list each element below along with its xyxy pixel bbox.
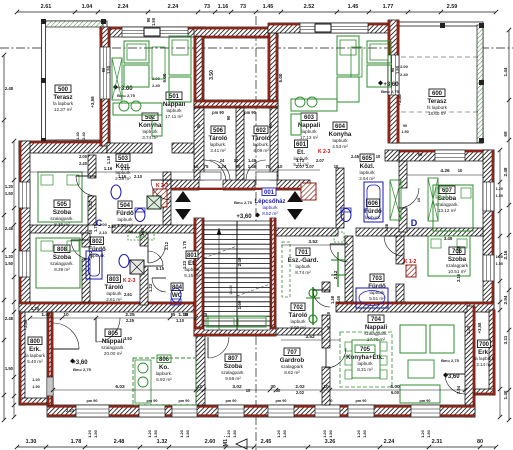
svg-text:2.48: 2.48 [5,86,14,91]
svg-text:fa lapburk: fa lapburk [474,356,495,361]
door 702 [313,290,330,307]
red faces east jog [465,303,494,417]
svg-text:1.50: 1.50 [496,262,503,266]
room label 503 K&#246;zl. [115,154,131,181]
svg-text:12.37 m²: 12.37 m² [54,107,73,112]
svg-text:szalagpark: szalagpark [446,263,469,268]
terrace 600 top rail [391,22,483,26]
red faces 805 west wall [48,312,52,405]
svg-text:K 2-3: K 2-3 [123,278,135,284]
bathtub 606 vertical [364,182,383,222]
window unit 501 top [122,27,188,37]
svg-text:lapburk: lapburk [262,205,278,210]
svg-text:lapburk: lapburk [142,129,158,134]
svg-text:1.10: 1.10 [176,318,185,323]
svg-text:1.50: 1.50 [395,65,400,74]
svg-text:1.50: 1.50 [496,194,503,198]
svg-text:Konyha: Konyha [329,131,352,138]
wall exterior west [19,141,30,312]
entrance arrow triangles left [175,191,191,220]
window top-right [435,150,465,161]
svg-text:805: 805 [108,331,119,337]
svg-text:2.10: 2.10 [121,166,130,171]
svg-text:700: 700 [479,342,490,348]
red face top-left wall [19,141,107,143]
svg-text:803: 803 [109,277,120,283]
window east 1 [483,182,494,211]
svg-text:Konyha: Konyha [139,122,162,129]
svg-text:601: 601 [296,142,307,148]
svg-text:703: 703 [372,276,383,282]
svg-text:3.52: 3.52 [124,336,133,341]
wall 702/707 [276,328,322,335]
svg-text:1.50: 1.50 [153,429,158,438]
svg-text:2.00: 2.00 [99,222,108,227]
svg-text:1.45: 1.45 [263,4,274,10]
door 803 [148,251,163,266]
svg-text:1.20: 1.20 [322,429,327,438]
red face 704 north [336,302,467,304]
svg-text:808: 808 [57,247,68,253]
svg-text:2.24: 2.24 [384,439,396,445]
wall top of unit 603 [268,23,399,33]
bed 706 [428,236,470,276]
balcony 800 bottom rail [19,398,53,405]
room label 601 Et. [293,140,309,167]
svg-text:Szoba: Szoba [448,256,467,263]
svg-text:+3,60: +3,60 [236,214,252,220]
room label 607 Szoba [435,186,459,213]
svg-text:1.46: 1.46 [384,223,389,232]
red flue labels [123,149,416,284]
svg-text:18.60 m²: 18.60 m² [428,111,447,116]
room label 504 F&#252;rd&#337; [116,201,134,228]
svg-text:704: 704 [371,317,382,323]
kitchen counter 502 [113,101,162,136]
kitchen counter 604 [291,97,337,135]
wall unit603 / terrace600 [388,20,399,143]
window unit 603 top [300,23,368,33]
svg-text:2.59: 2.59 [447,4,458,10]
interior dims bottom row [51,384,467,392]
svg-text:807: 807 [228,356,239,362]
terrace 500 posts [41,19,106,143]
svg-text:2.02: 2.02 [296,390,305,395]
room label 600 Terasz [427,89,448,116]
svg-text:5.51 m²: 5.51 m² [369,296,385,301]
svg-text:pm 90: pm 90 [244,110,257,115]
svg-text:2.00: 2.00 [400,64,409,69]
wall 702 east mid [322,315,330,348]
red faces bottom wall [47,406,475,415]
red face row2 bottom west [19,302,194,304]
door 807 [208,337,229,358]
window bottom 7 [348,405,374,417]
svg-text:2.07: 2.07 [296,164,305,169]
svg-text:1.50: 1.50 [93,429,98,438]
wardrobe 501 west [112,58,122,100]
room label 500 Terasz [53,85,74,112]
svg-text:1.20: 1.20 [5,254,14,259]
toilet 606 [341,208,351,222]
svg-text:1.40: 1.40 [503,390,508,399]
wall corridor east upper [270,108,278,180]
furniture 807 top [208,316,266,327]
svg-text:701: 701 [298,250,309,256]
svg-text:1.50: 1.50 [185,429,190,438]
svg-text:1.50: 1.50 [5,191,14,196]
svg-text:Et.: Et. [297,149,305,156]
svg-text:3.02: 3.02 [232,384,242,390]
wall 808 east lower [82,259,90,302]
room label 702 T&#225;rol&#243; [289,303,308,330]
svg-text:pm 90: pm 90 [276,399,287,403]
wall corridor north a [171,180,199,190]
svg-text:Tároló: Tároló [105,284,124,291]
svg-text:500: 500 [58,87,69,93]
window bottom 2 [139,405,165,417]
bed 607 [433,185,473,231]
stairwell label 001 [254,188,285,216]
svg-text:2.62: 2.62 [66,408,75,413]
wall recess top [194,27,278,38]
svg-text:Et.: Et. [188,260,196,267]
door 801 [148,246,165,263]
svg-text:Bm= 2,75: Bm= 2,75 [73,367,91,372]
svg-text:1.16: 1.16 [106,155,111,164]
terrace 500 top rail [43,21,103,27]
bottom window dims [87,429,431,438]
wall 505 east lower [88,196,96,225]
bathtub 703 oval [356,288,388,308]
svg-text:3.14 m²: 3.14 m² [476,362,492,367]
svg-text:10: 10 [197,384,203,390]
wardrobe 701 dashed [282,242,290,297]
svg-text:705: 705 [360,347,371,353]
room label 700 Erk. [474,340,495,367]
room label 604 Konyha [329,122,352,149]
svg-text:8.74 m²: 8.74 m² [295,270,311,275]
svg-text:Erk.: Erk. [29,346,41,353]
svg-text:Bm= 2,75: Bm= 2,75 [117,93,135,98]
wall 607 west upper [399,161,407,188]
svg-text:1.23: 1.23 [182,260,187,269]
svg-text:001: 001 [264,190,275,196]
room label 808 Szoba [50,245,74,272]
svg-text:1.20: 1.20 [496,187,503,191]
window bottom 3 [172,405,197,417]
door 602 [246,160,266,180]
svg-text:607: 607 [442,188,453,194]
svg-text:503: 503 [118,156,129,162]
svg-text:Szoba: Szoba [224,363,243,370]
svg-text:1.16: 1.16 [218,4,229,10]
svg-text:lapburk: lapburk [106,291,122,296]
svg-text:10: 10 [376,154,381,159]
svg-text:2.61: 2.61 [41,4,52,10]
wall 805 west [47,312,53,405]
svg-text:5.15: 5.15 [156,266,165,271]
svg-text:1.50: 1.50 [426,429,431,438]
red faces stair south [194,328,276,335]
interior dims mid left [28,312,198,320]
wall 501 south a [107,143,152,153]
sofa set 704 [400,325,454,403]
right secondary dimension line [498,148,502,419]
svg-text:30: 30 [276,388,281,393]
room label 803 T&#225;rol&#243; [105,275,124,302]
svg-text:10: 10 [416,197,421,202]
sofa set 603 [337,36,391,102]
svg-text:2.40: 2.40 [152,83,161,88]
svg-text:10: 10 [334,164,339,169]
wall row2 bottom west side [19,302,194,312]
svg-text:1.04: 1.04 [82,4,94,10]
wall 701 east [345,236,353,302]
svg-text:pm 90: pm 90 [356,399,367,403]
chimney 703 K [406,265,416,277]
svg-text:lapburk.: lapburk. [210,142,226,147]
door 707 [326,348,346,368]
svg-text:pm 90: pm 90 [87,399,98,403]
room label 707 Gardrob [280,348,305,375]
svg-text:K 2-3: K 2-3 [156,183,168,189]
svg-text:pm 90: pm 90 [147,399,158,403]
red faces terrace wall 500 [101,27,109,146]
svg-text:1.82: 1.82 [88,200,93,209]
window bottom 1 [76,405,109,417]
svg-text:Tároló: Tároló [209,135,228,142]
svg-text:602: 602 [256,128,267,134]
svg-text:2.40: 2.40 [82,132,86,139]
wall recess bottom [194,100,278,108]
svg-text:2.52: 2.52 [304,4,315,10]
wall 703 east upper [396,236,404,264]
bathtub 802 vertical [86,251,102,279]
interior dims row1 [30,155,194,172]
svg-text:24: 24 [220,158,225,163]
svg-text:90: 90 [146,17,151,22]
dryer green 701 [334,232,344,242]
svg-text:73: 73 [204,4,210,10]
svg-text:4.09 m²: 4.09 m² [253,148,269,153]
terrace 600 outline [391,25,483,143]
labels pm90 bottom windows [87,399,431,403]
svg-text:2.10: 2.10 [134,174,143,179]
svg-text:75: 75 [204,164,209,169]
svg-text:+3,58: +3,58 [90,96,95,108]
top dimension chain [15,4,498,14]
room label 602 T&#225;rol&#243; [252,126,271,153]
svg-text:8.39 m²: 8.39 m² [54,267,70,272]
svg-text:30: 30 [184,312,189,317]
cabinet 801 dark square [130,260,144,274]
svg-text:2.48: 2.48 [114,439,125,445]
svg-text:17.13 m²: 17.13 m² [300,135,319,140]
svg-text:800: 800 [30,339,41,345]
room label 802 F&#252;rd&#337; [88,237,106,258]
svg-text:10: 10 [63,312,69,318]
svg-text:1.40: 1.40 [336,295,341,304]
left secondary dimension line [12,139,16,419]
svg-text:600: 600 [432,91,443,97]
wall top-left horizontal [19,141,107,153]
svg-text:1.20: 1.20 [5,184,14,189]
svg-text:2.40: 2.40 [237,257,242,266]
svg-text:9.58 m²: 9.58 m² [225,376,241,381]
svg-text:702: 702 [293,305,304,311]
door corridor west [204,160,226,182]
svg-text:30: 30 [236,164,241,169]
svg-text:Fürdő: Fürdő [116,210,134,217]
svg-text:Erk.: Erk. [478,349,490,356]
svg-text:1.45: 1.45 [348,4,359,10]
svg-text:1.38: 1.38 [330,295,335,304]
svg-text:2.00: 2.00 [152,76,161,81]
svg-text:1.50: 1.50 [5,261,14,266]
svg-text:2.10: 2.10 [99,230,108,235]
svg-text:2.10: 2.10 [108,224,117,229]
window bottom 4 [218,405,244,417]
wall 605 east [336,168,344,228]
svg-text:5.92 m²: 5.92 m² [156,377,172,382]
wall bath 504 east [163,172,171,225]
svg-text:lapburk: lapburk [295,264,311,269]
svg-text:Nappali: Nappali [365,324,388,331]
svg-text:Tároló: Tároló [252,135,271,142]
red face corridor north [171,188,310,190]
svg-text:3.52: 3.52 [308,239,318,245]
svg-text:lapburk.: lapburk. [156,371,172,376]
svg-text:lapburk.: lapburk. [253,142,269,147]
balcony 800 west rail [19,312,25,405]
wall top of unit 501 [100,27,204,37]
bed 808 [36,238,80,288]
window sill marker 501 top [144,28,160,36]
svg-text:3.50: 3.50 [209,70,215,80]
red faces stair walls [195,218,275,336]
axis line horizontal [0,47,513,49]
kitchen 806 dashed [133,358,196,405]
svg-text:10: 10 [194,164,199,169]
terrace 600 posts [440,23,484,143]
svg-text:606: 606 [368,201,379,207]
svg-text:8.62 m²: 8.62 m² [284,370,300,375]
svg-text:90: 90 [268,123,273,128]
red face west wall [19,141,21,312]
svg-text:2.40: 2.40 [400,72,409,77]
toilet 804 [171,288,181,305]
svg-text:szalagpark.: szalagpark. [221,370,245,375]
svg-text:603: 603 [304,115,315,121]
svg-text:2.64 m²: 2.64 m² [359,176,375,181]
wall top-right horizontal [399,150,494,161]
svg-text:pm 90: pm 90 [420,399,431,403]
svg-text:lapburk: lapburk [332,138,348,143]
svg-text:1.24: 1.24 [218,164,227,169]
wall 707 east lower [322,367,330,405]
red faces recess top [194,28,278,37]
room label 704 Nappali [364,315,388,342]
svg-text:1.40: 1.40 [466,325,471,334]
svg-text:Fürdő: Fürdő [368,283,386,290]
svg-text:90: 90 [403,124,407,128]
svg-text:10: 10 [278,164,283,169]
svg-text:2.25: 2.25 [126,318,135,323]
svg-text:2.48: 2.48 [5,316,14,321]
svg-text:8.52 m²: 8.52 m² [262,211,278,216]
svg-text:fa lapburk: fa lapburk [53,101,74,106]
landing furniture green [206,318,266,327]
svg-text:2.45: 2.45 [261,439,272,445]
svg-text:2.60: 2.60 [205,439,216,445]
window 805 west [47,377,53,396]
interior dims center row [99,222,134,235]
svg-text:1.73: 1.73 [296,158,305,163]
room label 804 WC [171,283,183,299]
svg-text:Tároló: Tároló [289,312,308,319]
door 804 [152,278,166,292]
wall stair west [194,218,204,336]
svg-text:Bm= 2,75: Bm= 2,75 [441,358,459,363]
window bottom 6 [315,405,340,417]
svg-text:2.94: 2.94 [503,295,508,304]
svg-text:10: 10 [246,388,251,393]
svg-text:90: 90 [390,67,395,72]
svg-text:10: 10 [323,384,329,390]
svg-text:1.20: 1.20 [31,306,40,311]
door 704 to balcony 700 [445,374,465,394]
svg-text:Szoba: Szoba [438,195,457,202]
room label 502 Konyha [139,113,162,140]
svg-text:707: 707 [287,350,298,356]
wall 807 west [196,312,205,405]
interior dims room 607 [407,168,483,175]
chimney left K [153,189,167,207]
svg-text:1.50: 1.50 [32,385,39,389]
svg-text:604: 604 [335,124,346,130]
svg-text:95: 95 [171,312,176,317]
svg-text:pm 90: pm 90 [179,399,190,403]
dryer green 802 [128,232,154,240]
svg-text:1.42: 1.42 [41,312,51,318]
wall 704 north [336,302,467,312]
svg-text:1.20: 1.20 [147,429,152,438]
svg-text:17.70 m²: 17.70 m² [367,337,386,342]
door 504 corr [151,180,171,200]
balcony 700 east rail [489,310,495,395]
svg-text:3.50 m²: 3.50 m² [117,223,133,228]
balcony 700 bottom rail [475,389,495,395]
svg-text:1.60: 1.60 [237,300,242,309]
window west 1 [19,182,30,208]
svg-text:2.16: 2.16 [503,250,508,259]
svg-text:1.50: 1.50 [151,17,156,26]
svg-text:2.07: 2.07 [316,158,325,163]
svg-text:2.12: 2.12 [164,241,169,250]
wall 607 west lower [399,208,407,232]
basin 802 [119,255,129,268]
wall stair south [194,327,276,336]
svg-text:+3,58: +3,58 [23,319,28,330]
door panels entry [200,172,277,180]
window west 2 [19,251,30,277]
window sill marker 603 top [315,24,331,32]
chimney right K [301,183,316,200]
terrace door 500 [100,47,110,99]
wall 505/808 b [112,225,194,233]
room label 606 F&#252;rd&#337; [364,199,382,220]
